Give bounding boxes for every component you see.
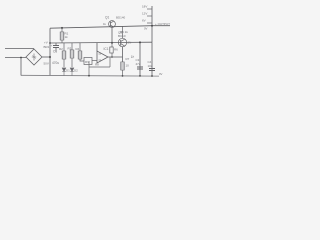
svg-text:+ OUTPUT: + OUTPUT: [155, 22, 170, 26]
node: C4 bottom: [151, 75, 153, 77]
svg-text:47u: 47u: [136, 62, 141, 66]
wire bridge output: [42, 56, 50, 58]
resistor R7 (Q2 emitter): [121, 62, 124, 76]
svg-text:6V: 6V: [142, 19, 146, 23]
resistor R1: [60, 28, 64, 43]
svg-text:R7: R7: [126, 57, 130, 61]
svg-text:10: 10: [126, 64, 130, 68]
diode D2: [70, 68, 74, 76]
wire right vertical to rail: [151, 42, 153, 75]
svg-text:12V: 12V: [142, 12, 147, 16]
svg-text:BD140: BD140: [116, 16, 126, 20]
svg-text:0V: 0V: [144, 27, 148, 31]
transistor Q2: [118, 26, 126, 62]
wire op-amp output: [108, 56, 123, 58]
svg-text:D2: D2: [74, 69, 78, 73]
svg-text:R8: R8: [95, 63, 99, 67]
diode D1: [62, 68, 66, 76]
svg-text:1k: 1k: [131, 55, 135, 59]
node: C3 top: [139, 41, 141, 43]
svg-text:IC1: IC1: [104, 47, 109, 51]
op-amp IC1: [97, 43, 108, 63]
svg-text:50V: 50V: [44, 62, 49, 66]
node: bridge + junction: [49, 56, 51, 58]
resistor R6 (output to mid rail): [110, 43, 113, 58]
node: mid-rail junction: [111, 42, 113, 44]
wire battery vertical: [151, 6, 153, 42]
svg-text:Q1: Q1: [105, 16, 109, 20]
wire top rail: [50, 26, 152, 29]
wire right vertical C4: [139, 42, 141, 75]
node: feedback-rail: [88, 75, 90, 77]
node: R7 rail junction: [122, 75, 124, 77]
svg-text:RV: RV: [85, 60, 89, 64]
svg-text:R3: R3: [68, 47, 72, 51]
svg-text:R2: R2: [59, 47, 63, 51]
svg-text:470u: 470u: [52, 61, 59, 65]
node: C3 bottom: [139, 75, 141, 77]
capacitor C3: [137, 67, 143, 69]
svg-text:+: +: [51, 44, 53, 48]
transistor Q1: [109, 21, 116, 43]
resistor R4 branch: [78, 43, 84, 61]
node: R1 top junction: [61, 27, 63, 29]
capacitor C4: [149, 69, 155, 71]
box RV1: [84, 58, 97, 65]
wire mid rail: [50, 41, 152, 44]
svg-text:18V: 18V: [142, 5, 147, 9]
wire left vertical bus: [49, 28, 51, 75]
bridge rectifier BR1: [26, 49, 42, 65]
battery taps B1: [147, 9, 152, 23]
svg-text:10u: 10u: [148, 64, 153, 68]
wire feedback: [89, 57, 110, 76]
capacitor C1 (on bus): [53, 43, 59, 52]
resistor R3 branch: [70, 43, 74, 67]
wire lower-left drop: [20, 58, 22, 76]
svg-text:2N: 2N: [128, 41, 132, 45]
svg-text:BR1: BR1: [44, 45, 50, 49]
svg-text:D1: D1: [66, 69, 70, 73]
node: mid-rail left tee: [49, 42, 51, 44]
wire right output stub: [152, 25, 170, 27]
svg-text:BC10: BC10: [118, 34, 126, 38]
svg-text:+V: +V: [44, 41, 48, 45]
wire AC input top: [5, 48, 34, 50]
wire bottom ground rail: [21, 74, 159, 77]
node: lower-left tee: [20, 57, 22, 59]
wire AC input bottom: [5, 57, 26, 59]
resistor R2 branch: [62, 43, 66, 67]
svg-text:R4: R4: [76, 47, 80, 51]
svg-text:C1: C1: [53, 50, 57, 54]
svg-text:R6: R6: [114, 48, 118, 52]
svg-text:0V: 0V: [159, 72, 163, 76]
node: output junction: [151, 25, 153, 27]
svg-text:1k: 1k: [65, 35, 69, 39]
